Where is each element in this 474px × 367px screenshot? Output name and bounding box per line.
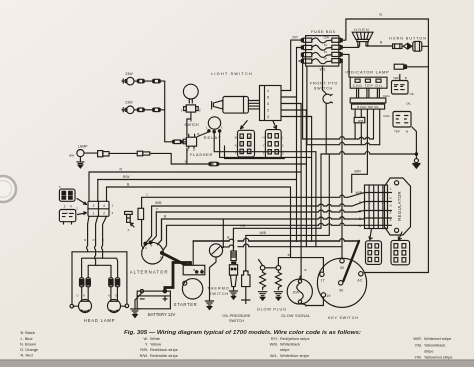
connector 2 on lower lamp wire — [144, 108, 165, 112]
light switch lever — [212, 100, 223, 109]
svg-text:23W: 23W — [125, 72, 133, 76]
svg-text:20A: 20A — [293, 290, 300, 294]
svg-text:LIGHT SWITCH: LIGHT SWITCH — [211, 71, 253, 76]
wire color code column 4 — [413, 336, 452, 359]
svg-text:White/black: White/black — [280, 342, 300, 347]
headlamp bullet connector 3 — [109, 278, 113, 287]
svg-text:GLOW PLUG: GLOW PLUG — [257, 307, 287, 311]
regulator body — [385, 178, 411, 235]
arrow: bundle to block A — [369, 229, 372, 240]
bus 50 hop bumps — [229, 244, 249, 247]
svg-text:OIL: OIL — [409, 92, 414, 96]
harness connector block left (B S T / 1-4 2-5 3-6) — [238, 130, 255, 157]
wire: front PTO switch down — [325, 103, 327, 154]
arrow from lower plug to block — [78, 212, 87, 215]
bus wire y139 — [303, 137, 374, 139]
svg-text:N: N — [83, 294, 85, 298]
connector on flasher feed wire — [173, 140, 186, 144]
svg-text:1: 1 — [181, 109, 183, 113]
bar1 drops to lamp side terminals — [72, 252, 127, 304]
svg-text:50: 50 — [340, 266, 344, 270]
svg-text:5A: 5A — [324, 43, 327, 47]
svg-text:N: N — [84, 238, 86, 242]
indicator lamp housing — [350, 77, 387, 88]
svg-text:G: G — [390, 196, 392, 200]
wire: R bus drop to solenoid — [192, 241, 194, 265]
svg-text:White/red stripe: White/red stripe — [424, 336, 451, 341]
svg-text:Yellow/black: Yellow/black — [424, 342, 445, 347]
svg-text:Yellow: Yellow — [150, 342, 161, 347]
fuse link A component — [125, 211, 133, 222]
wire: light switch pin4 jog — [281, 109, 306, 111]
svg-text:R/B.: R/B. — [140, 347, 148, 352]
regulator pin stubs — [388, 193, 392, 226]
headlamp feed wire 3 from block — [102, 216, 107, 258]
svg-text:THERMO: THERMO — [207, 287, 229, 291]
headlamp bullet connector 4 — [115, 278, 119, 287]
harness block right letters — [262, 135, 264, 155]
4-way block cell digits — [93, 204, 106, 216]
svg-text:TEP: TEP — [394, 130, 400, 134]
wire Y: to bundle row3 — [151, 210, 388, 242]
wire W/R: zigzag from indicator drop to regulator bundle — [352, 109, 368, 192]
TEP-B block 1 — [392, 75, 409, 95]
svg-text:SWITCH: SWITCH — [209, 292, 229, 296]
wire color code column 1 — [20, 330, 38, 357]
nest wire a: relay mid to corner down — [214, 138, 316, 247]
svg-text:30: 30 — [339, 288, 343, 292]
harness block left digits — [241, 135, 251, 154]
svg-text:Y.: Y. — [145, 342, 148, 347]
wire L: alternator to regulator bundle row1 — [142, 193, 388, 249]
svg-text:OIL: OIL — [406, 102, 411, 106]
svg-text:R/B: R/B — [358, 119, 363, 123]
horn trapezoid — [352, 32, 373, 46]
headlamp feed wire 2 from block — [95, 216, 98, 265]
svg-text:B: B — [305, 304, 307, 308]
plug feeding TEP-B block 1 — [394, 64, 428, 69]
hole punch ring at left edge — [0, 176, 16, 202]
svg-text:W.: W. — [143, 336, 148, 341]
arrow to fuse link A — [131, 223, 135, 227]
headlamp left — [70, 287, 92, 313]
flasher body — [183, 134, 196, 148]
thermo switch — [209, 219, 223, 301]
headlamp bullet connector 1 — [80, 278, 84, 287]
light switch body — [223, 97, 249, 114]
ground (right, under TEP-B): ring and chevron — [413, 159, 420, 169]
glow plug 2 ground — [274, 292, 282, 300]
svg-text:A: A — [390, 218, 392, 222]
svg-text:W/R.: W/R. — [413, 336, 422, 341]
svg-text:Y/R: Y/R — [240, 224, 246, 228]
wire B3: glow plugs to key switch 17 — [278, 258, 323, 272]
fuse box outline — [306, 36, 339, 67]
plug lower left — [59, 210, 75, 225]
svg-text:W/R: W/R — [354, 170, 361, 174]
oil pressure switch — [229, 251, 237, 291]
horn button plug — [413, 41, 422, 51]
svg-text:4: 4 — [103, 204, 105, 208]
connector on lower lamp wire — [134, 108, 144, 112]
indicator connector bar — [350, 98, 386, 103]
svg-text:Y/B.: Y/B. — [415, 342, 422, 347]
svg-text:W/B: W/B — [155, 201, 162, 205]
wire: fuse box W/L bottom to front PTO switch — [323, 66, 327, 93]
svg-text:B: B — [235, 136, 237, 140]
headlamp right — [108, 287, 129, 313]
bundle wire labels — [356, 191, 363, 228]
wire Y/R: oil pressure switch run — [233, 228, 321, 251]
thermo ground — [205, 301, 213, 310]
svg-text:S: S — [221, 125, 223, 129]
connector 2 on upper lamp wire — [144, 79, 165, 83]
svg-text:E: E — [390, 211, 392, 215]
arrow to left harness block — [241, 121, 248, 129]
glow plug 1 ground — [258, 292, 266, 300]
bus wire y154 to ground junction — [321, 152, 416, 154]
svg-text:S: S — [201, 268, 203, 272]
long riser: fuse row4 to key switch 50 — [341, 61, 343, 259]
svg-text:stripe: stripe — [280, 347, 290, 352]
resistor box on L drop wire — [138, 208, 144, 219]
svg-text:W/L: W/L — [320, 67, 326, 71]
svg-text:W/B: W/B — [356, 191, 363, 195]
svg-text:Yellow/red stripe: Yellow/red stripe — [424, 354, 452, 359]
svg-text:1: 1 — [93, 212, 95, 216]
lamp 23W lower: bulb — [122, 106, 134, 114]
svg-text:R/Y.: R/Y. — [271, 336, 278, 341]
wire: fuse row1 right up to top R bus — [342, 19, 346, 40]
svg-text:B: B — [193, 268, 195, 272]
svg-text:CHG TEP OIL: CHG TEP OIL — [353, 84, 384, 88]
wire: W/B riser from canister run — [328, 154, 330, 235]
svg-text:stripe: stripe — [424, 348, 434, 353]
svg-text:LAMP: LAMP — [78, 145, 88, 149]
svg-text:OIL PRESSURE: OIL PRESSURE — [223, 314, 251, 318]
svg-text:B: B — [102, 238, 104, 242]
svg-text:W/B.: W/B. — [270, 342, 278, 347]
battery ground — [131, 293, 142, 318]
svg-text:R/W.: R/W. — [140, 353, 148, 358]
connector 2 on BW lamp wire — [137, 151, 150, 156]
connector on upper lamp wire — [134, 79, 144, 83]
wire: right border to key switch AC — [364, 272, 428, 274]
light switch terminal block 1 5 4 2 3 — [260, 86, 282, 121]
wire: switch B to flasher — [187, 117, 191, 136]
svg-text:L: L — [147, 193, 149, 197]
thick wire: R bus to key switch 30 — [343, 241, 359, 281]
fuse 1 (15A) with end connectors — [301, 38, 342, 43]
wire: light switch pin3 jog — [281, 103, 301, 105]
svg-text:O: O — [115, 294, 117, 298]
wire color code column 2 — [140, 336, 178, 358]
svg-text:HORN: HORN — [354, 28, 370, 32]
svg-text:BATTERY 12V: BATTERY 12V — [148, 312, 176, 317]
nest wire e: R/W bus from far left — [98, 97, 297, 242]
wire color code column 3 — [270, 336, 310, 358]
svg-text:RELAY: RELAY — [204, 135, 222, 140]
svg-text:B CHG TEP OIL: B CHG TEP OIL — [357, 105, 379, 109]
svg-text:L. Blue: L. Blue — [21, 336, 33, 341]
svg-text:W/L.: W/L. — [270, 353, 278, 358]
svg-text:O. Orange: O. Orange — [20, 347, 38, 352]
light switch block digits — [267, 88, 270, 119]
plug upper left — [59, 189, 75, 201]
wire: lamp bus to flasher left lug — [165, 141, 173, 143]
lamp BW: bulb and ground — [77, 150, 84, 169]
svg-text:AC: AC — [357, 279, 362, 283]
svg-text:R/Y: R/Y — [292, 36, 298, 40]
wire: BW lamp feed to flasher bus — [109, 153, 187, 164]
headlamp bullet connector 2 — [86, 278, 90, 287]
headlamp distribution bar 1 — [72, 251, 127, 253]
wire: horn right leg to horn button (R) — [367, 45, 393, 47]
wire: glow signal bottom to key switch 19 — [301, 297, 324, 305]
svg-text:SWITCH: SWITCH — [229, 319, 244, 323]
harness block right digits — [282, 135, 284, 155]
arrow to right harness block — [273, 121, 277, 129]
svg-text:S: S — [235, 143, 237, 147]
glow signal lamp — [287, 279, 312, 304]
svg-text:5A: 5A — [324, 56, 327, 60]
wire: Y/R riser from oil pressure run — [320, 154, 322, 228]
svg-text:FUSE BOX: FUSE BOX — [311, 29, 336, 34]
svg-text:SWITCH: SWITCH — [314, 87, 333, 91]
oil pressure switch ground — [229, 291, 237, 299]
connector block on BW lamp wire — [84, 151, 109, 157]
R thick bus: starter to key switch — [193, 240, 359, 242]
wire: fuse row4 left down long — [299, 61, 307, 145]
svg-text:CHG: CHG — [383, 94, 390, 98]
relay circle — [208, 117, 221, 133]
R/B connector on wire — [354, 117, 365, 122]
svg-text:N: N — [108, 294, 110, 298]
canister (safety start switch) — [242, 271, 250, 300]
svg-text:B3: B3 — [288, 253, 292, 257]
alternator body — [142, 241, 164, 264]
fuse 4 — [301, 59, 342, 64]
connector on Y wire — [209, 162, 219, 166]
svg-text:W/B: W/B — [259, 231, 266, 235]
svg-text:N: N — [150, 244, 152, 248]
wire: light switch pin5 jog — [281, 116, 311, 118]
wire: fuse row2 left to light switch pin 2 — [281, 48, 301, 98]
front PTO switch C symbol — [323, 94, 333, 103]
wire: blocks bottom wrap — [225, 146, 285, 159]
svg-text:Red/yellow stripe: Red/yellow stripe — [280, 336, 310, 341]
svg-text:CHG: CHG — [383, 114, 390, 118]
svg-text:B: B — [198, 132, 200, 136]
glow plug 2 — [275, 258, 281, 290]
indicator label strip B CHG TEP OIL — [352, 104, 385, 109]
TEP-B block 2 — [393, 112, 411, 128]
svg-text:T: T — [235, 151, 237, 155]
svg-text:A: A — [160, 255, 162, 259]
headlamp feed wire 1 from block — [87, 216, 89, 252]
svg-text:N. Brown: N. Brown — [20, 341, 36, 346]
svg-text:FRONT PTO: FRONT PTO — [310, 82, 338, 86]
svg-text:2: 2 — [199, 109, 201, 113]
fuse row3 right to indicator box — [342, 54, 349, 77]
nest wire d: R bus from far left — [89, 104, 301, 281]
headlamp wire marks N O B — [84, 238, 104, 242]
switch B: knob circle — [183, 84, 198, 103]
svg-text:A: A — [127, 228, 129, 232]
svg-text:SWITCH: SWITCH — [184, 123, 199, 127]
regulator pin letters — [390, 187, 392, 222]
svg-text:N: N — [390, 204, 392, 208]
svg-text:White: White — [150, 336, 160, 341]
wire: horn left leg to fuse row2 right — [342, 46, 359, 47]
wires down from label strip — [355, 109, 380, 145]
wire: lamp bus vertical down to flasher feed — [164, 81, 166, 142]
svg-text:B: B — [405, 76, 407, 80]
svg-text:F: F — [145, 246, 147, 250]
wire: relay left terminal to flasher pin — [198, 132, 209, 137]
svg-text:B: B — [406, 130, 408, 134]
key terminal labels — [321, 266, 363, 298]
svg-text:2: 2 — [64, 204, 66, 208]
harness block left letters — [235, 136, 237, 155]
svg-text:19: 19 — [326, 294, 330, 298]
4-way connector block — [88, 201, 109, 216]
wire: top R bus across and right border down — [346, 19, 429, 273]
wire: fuse row3 left down long — [301, 55, 302, 139]
svg-text:R/W: R/W — [123, 175, 130, 179]
svg-text:BW: BW — [69, 154, 74, 158]
svg-text:TEP: TEP — [393, 76, 399, 80]
svg-text:4: 4 — [70, 204, 72, 208]
svg-text:B: B — [305, 268, 307, 272]
svg-text:B. Black: B. Black — [21, 330, 35, 335]
R bus hop bumps — [229, 238, 249, 241]
headlamp distribution bar 3 — [88, 265, 111, 278]
thick cable: alternator A to starter solenoid — [163, 253, 191, 266]
svg-text:17: 17 — [321, 279, 325, 283]
bottom grey strip — [0, 360, 474, 367]
wire: left bus verticals into top of 4-way block — [89, 172, 107, 201]
connector block B below regulator — [391, 240, 410, 264]
hop bumps over risers x321 x329 — [319, 204, 332, 225]
wire B long dark: to bundle row4 — [158, 217, 388, 245]
svg-text:O: O — [76, 294, 78, 298]
harness connector block right — [265, 130, 281, 159]
svg-text:HORN BUTTON: HORN BUTTON — [389, 37, 427, 41]
light switch prongs — [248, 101, 259, 109]
bus 50: thermo to key switch 50 — [222, 246, 342, 248]
svg-text:Red/black stripe: Red/black stripe — [150, 347, 178, 352]
nest wire c: lamp/flasher Y feed — [219, 110, 306, 247]
battery — [137, 289, 170, 308]
svg-text:FLASHER: FLASHER — [190, 152, 213, 157]
connector block A below bundle — [366, 241, 382, 265]
wire W: to bundle row5 — [163, 223, 387, 250]
bus wire y144.7 — [307, 142, 380, 144]
svg-text:15A: 15A — [323, 36, 330, 40]
headlamp socket marks — [76, 294, 116, 298]
svg-text:Y/R.: Y/R. — [414, 354, 422, 359]
svg-text:Fig. 305 — Wiring diagram typi: Fig. 305 — Wiring diagram typical of 170… — [124, 330, 361, 336]
svg-text:STARTER: STARTER — [174, 302, 198, 307]
arrow: regulator to block B — [398, 232, 402, 240]
starter solenoid — [183, 265, 205, 275]
canister T ground — [242, 300, 250, 304]
nest wire b — [220, 117, 312, 242]
svg-text:KEY SWITCH: KEY SWITCH — [328, 316, 359, 320]
indicator lamp drop wires — [357, 88, 380, 98]
svg-text:R. Red: R. Red — [21, 353, 33, 358]
wire: fuse row1 left R/Y to light switch pin 1 — [281, 40, 301, 90]
wire: TEP-B block 2 down to ground — [412, 127, 416, 159]
svg-text:2: 2 — [93, 204, 95, 208]
lamp 23W upper: bulb — [122, 77, 134, 85]
wire: glow plug tops tie — [265, 267, 276, 269]
wire: glow signal top B riser — [300, 276, 301, 279]
svg-text:INDICATOR LAMP: INDICATOR LAMP — [345, 70, 389, 75]
headlamp distribution bar 2 — [82, 258, 118, 278]
thick cable: battery + to solenoid — [165, 263, 191, 292]
svg-text:5A: 5A — [324, 50, 327, 54]
svg-text:H: H — [262, 135, 264, 139]
svg-text:Red/white stripe: Red/white stripe — [150, 353, 178, 358]
svg-text:ALTERNATOR: ALTERNATOR — [130, 269, 169, 274]
wire: horn button to right border — [422, 45, 429, 47]
arrow from upper plug to block — [77, 199, 87, 205]
svg-text:GLOW SIGNAL: GLOW SIGNAL — [281, 314, 310, 318]
regulator harness bundle box — [365, 185, 388, 229]
svg-text:T: T — [263, 151, 265, 155]
wire: relay mid terminal down to nest wire a — [213, 133, 215, 138]
nest wire f: B bus from far left — [107, 187, 291, 258]
horn button connector — [393, 44, 402, 49]
svg-text:2: 2 — [103, 212, 105, 216]
starter motor — [182, 279, 202, 299]
switch B: body with terminals 1 2 — [184, 105, 199, 117]
svg-text:23W: 23W — [125, 100, 133, 104]
svg-text:Y: Y — [263, 143, 265, 147]
glow plug 1 — [259, 260, 266, 290]
wire W/B: to bundle row2 — [146, 202, 388, 244]
wire: flasher Y output down and right — [187, 148, 213, 164]
svg-text:White/blue stripe: White/blue stripe — [280, 353, 309, 358]
horn button contact arrows — [403, 43, 407, 49]
svg-text:HEAD LAMP: HEAD LAMP — [84, 318, 115, 323]
fuse 3 — [301, 52, 342, 57]
svg-text:REGULATOR: REGULATOR — [397, 191, 402, 221]
wire W/B: canister run — [246, 235, 329, 271]
fuse 2 — [301, 45, 342, 50]
key switch — [317, 258, 366, 307]
